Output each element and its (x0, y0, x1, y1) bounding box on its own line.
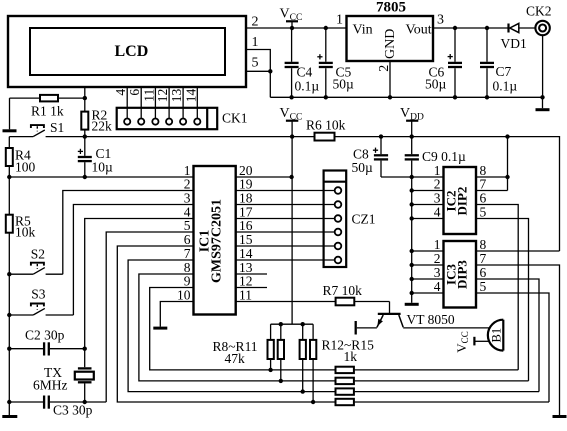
svg-text:2: 2 (434, 251, 441, 266)
connector CK1 wires from LCD (126, 87, 128, 122)
svg-text:1k: 1k (344, 349, 358, 364)
capacitor C5 (electrolytic) (324, 26, 328, 30)
svg-text:LCD: LCD (115, 43, 149, 60)
svg-text:10k: 10k (15, 225, 36, 240)
switch S2 (7, 272, 11, 276)
svg-text:GND: GND (383, 29, 398, 59)
svg-text:50µ: 50µ (425, 77, 447, 92)
svg-text:S3: S3 (31, 287, 46, 302)
regulator U 7805 (347, 16, 434, 61)
svg-text:R6 10k: R6 10k (306, 118, 346, 133)
svg-text:7: 7 (480, 251, 487, 266)
wire IC3 pin5 to bus D right (476, 293, 549, 402)
wire LCD pin2 to 7805 Vin (top supply wire) (246, 27, 347, 29)
ground (DIP common) (405, 303, 419, 306)
svg-text:DIP3: DIP3 (454, 260, 469, 289)
resistor R6 10k (315, 133, 335, 141)
svg-text:GMS97C2051: GMS97C2051 (210, 199, 225, 283)
ground (bottom left) (8, 402, 10, 415)
wire VT collector to buzzer B1 (403, 327, 490, 329)
svg-text:2: 2 (434, 177, 441, 192)
resistor R11 (312, 324, 314, 340)
svg-text:12: 12 (239, 274, 253, 289)
resistor R7 10k (236, 301, 336, 303)
ground (IC1 pin10) (153, 327, 167, 330)
svg-text:6: 6 (184, 232, 191, 247)
svg-text:6: 6 (480, 191, 487, 206)
wire LCD pin1 (246, 50, 270, 72)
node C6 junction (453, 26, 457, 30)
CZ1 holes (335, 187, 342, 194)
capacitor C1 10u (electrolytic) (78, 150, 83, 152)
svg-text:1: 1 (434, 237, 441, 252)
wire R7 to VT base (389, 302, 391, 314)
diode VD1 (507, 24, 509, 33)
svg-text:C2 30p: C2 30p (25, 328, 65, 343)
resistor R2 22k (84, 98, 86, 112)
wire pin5 junction down to ground rail (269, 71, 271, 97)
svg-text:1: 1 (336, 13, 343, 28)
wire IC2 pin7 to VDD feed (476, 190, 508, 192)
svg-text:18: 18 (239, 191, 253, 206)
svg-text:16: 16 (239, 218, 253, 233)
LCD module inner box (30, 28, 225, 75)
node crystal bottom junction (83, 400, 87, 404)
svg-text:C4: C4 (297, 65, 313, 80)
node C8 junction (379, 134, 383, 138)
wire VCC rail (left section) (46, 136, 315, 138)
wire S2 to IC1 pin2 (63, 191, 194, 275)
wire C8 bottom to IC2 pin1 (381, 176, 444, 178)
CK1 holes (124, 119, 130, 125)
capacitor C9 0.1u (411, 137, 413, 155)
svg-text:CZ1: CZ1 (352, 212, 376, 227)
wire crystal-bottom node to IC1 pin5 (106, 232, 193, 402)
svg-text:VD1: VD1 (501, 36, 527, 51)
svg-text:22k: 22k (92, 119, 113, 134)
wire IC1 pin6 to bottom bus D (117, 246, 335, 402)
wire IC1 pin20 to VCC line (236, 176, 292, 178)
op IC1 GMS97C2051 box (194, 166, 236, 315)
wire IC2 pin5 to bus B right (476, 219, 529, 381)
node R4/R5/reset junction (7, 175, 11, 179)
svg-text:CK2: CK2 (526, 4, 552, 19)
node C2 left junction (7, 347, 11, 351)
switch IC2 DIP2 box (444, 167, 477, 234)
resistor R5 10k (8, 177, 10, 215)
svg-text:VT 8050: VT 8050 (407, 312, 455, 327)
svg-text:7805: 7805 (376, 0, 406, 16)
svg-text:3: 3 (184, 191, 191, 206)
wire IC2 pin6 to bus A right (476, 205, 518, 370)
svg-text:47k: 47k (225, 351, 246, 366)
svg-text:7: 7 (480, 177, 487, 192)
node C3 left junction (7, 400, 11, 404)
wire VCC vertical feed (291, 137, 293, 325)
node R2/C1 on VCC rail (83, 134, 87, 138)
wire IC3 pin8 to VDD right edge (476, 250, 560, 252)
wire IC3 pin6 to bus C right (476, 279, 539, 392)
svg-text:DIP2: DIP2 (454, 187, 469, 216)
svg-text:4: 4 (113, 89, 128, 96)
svg-text:C7: C7 (496, 64, 512, 79)
svg-text:B1: B1 (489, 328, 503, 343)
svg-text:0.1µ: 0.1µ (295, 79, 320, 94)
resistor R4 100 (6, 148, 13, 166)
svg-text:5: 5 (252, 56, 259, 71)
wire VT emitter to ground (357, 327, 377, 329)
wire S1 to R4 (8, 137, 10, 148)
capacitor C7 (486, 28, 488, 62)
svg-text:3: 3 (434, 191, 441, 206)
node C1 bottom junction (83, 175, 87, 179)
resistor R1 1k (10, 97, 41, 99)
wire 7805 GND pin to ground rail (389, 61, 391, 97)
svg-text:S1: S1 (50, 120, 64, 135)
svg-text:4: 4 (434, 279, 441, 294)
svg-text:CK1: CK1 (222, 111, 248, 126)
capacitor C3 30p (9, 401, 43, 403)
wire IC3 pin7 to bottom-right ground (476, 265, 560, 415)
svg-text:14: 14 (183, 89, 198, 103)
node pin20/VCC junction (289, 175, 293, 179)
connector CK1 box (117, 108, 218, 129)
LCD module outer box (8, 16, 246, 87)
capacitor C8 50u (electrolytic) (380, 137, 382, 155)
wire IC1 pin8 to bottom bus B (139, 274, 336, 381)
wire crystal-top node to IC1 pin4 (85, 219, 194, 349)
svg-text:3: 3 (437, 13, 444, 28)
transistor VT 8050 (378, 313, 401, 315)
svg-text:10µ: 10µ (92, 160, 114, 175)
node R1/R2 junction (83, 96, 87, 100)
wire LCD VO pin down (84, 87, 86, 98)
wire S3 to IC1 pin3 (73, 205, 193, 316)
svg-text:6MHz: 6MHz (33, 378, 68, 393)
node IC2 pin8 feed junction (505, 134, 509, 138)
node Vcc/top wire junction (290, 26, 294, 30)
node VDD/C9 junction (410, 134, 414, 138)
wire LCD pin5 (246, 70, 270, 72)
buzzer B1 (502, 320, 504, 351)
wires IC1 pins 19-14 to CZ1 (236, 190, 338, 192)
ground (bottom right) (553, 415, 567, 418)
svg-text:50µ: 50µ (352, 160, 374, 175)
resistor R10 (302, 324, 304, 340)
wire DIP common line down to ground (411, 177, 413, 303)
svg-text:C9 0.1µ: C9 0.1µ (422, 149, 466, 164)
wire stubs to IC3 pins 1-4 (410, 249, 414, 253)
switch S3 (7, 313, 11, 317)
connector CZ1 box (324, 171, 347, 268)
svg-text:11: 11 (239, 288, 252, 303)
wire 7805 Vout to diode VD1 (433, 27, 508, 29)
svg-text:1: 1 (252, 35, 259, 50)
wire power section ground rail (270, 96, 542, 98)
svg-text:10: 10 (177, 288, 191, 303)
wire VDD rail (335, 137, 560, 251)
wire reset rail to IC1 pin1 (9, 176, 193, 178)
svg-text:S2: S2 (31, 247, 45, 262)
svg-text:Vout: Vout (406, 23, 432, 38)
svg-text:3: 3 (434, 265, 441, 280)
resistor network R8-R11 top bar (271, 323, 314, 325)
svg-text:2: 2 (252, 15, 259, 30)
svg-text:6: 6 (480, 265, 487, 280)
node VCC symbol junction (290, 134, 294, 138)
svg-text:7: 7 (184, 246, 191, 261)
svg-text:15: 15 (239, 232, 253, 247)
svg-text:19: 19 (239, 177, 253, 192)
svg-text:Vin: Vin (353, 23, 373, 38)
wire IC1 pin13 stub (236, 273, 267, 275)
crystal TX 6MHz (84, 349, 86, 368)
ground (power section) (542, 97, 544, 108)
node C7 junction (485, 26, 489, 30)
node LCD pin1/pin5 junction (268, 69, 272, 73)
wire R4 to reset rail (8, 166, 10, 177)
wire left column below R5 (8, 233, 10, 402)
svg-text:C3 30p: C3 30p (53, 403, 93, 418)
svg-text:2: 2 (184, 177, 191, 192)
capacitor C6 (electrolytic) (454, 28, 456, 62)
svg-text:12: 12 (155, 89, 170, 103)
node crystal top junction (83, 347, 87, 351)
connector CK2 (535, 21, 549, 35)
svg-text:8: 8 (480, 237, 487, 252)
switch IC3 DIP3 box (444, 241, 477, 308)
svg-text:R1 1k: R1 1k (31, 104, 64, 119)
wire CK2 to ground rail (542, 35, 544, 97)
node C9 bottom junction (410, 175, 414, 179)
svg-text:6: 6 (127, 89, 142, 96)
capacitor C4 (291, 28, 293, 62)
svg-text:0.1µ: 0.1µ (493, 79, 518, 94)
svg-text:50µ: 50µ (333, 77, 355, 92)
wire stubs to IC2 pins 2-4 (410, 188, 414, 192)
wire VCC to buzzer (474, 340, 489, 342)
svg-text:100: 100 (15, 160, 36, 175)
svg-text:13: 13 (169, 89, 184, 103)
wire IC1 pin12 stub (236, 287, 267, 289)
resistor R8 (270, 324, 272, 340)
wire IC1 pin10 to ground (160, 302, 193, 327)
ground (R1 left) (9, 98, 11, 129)
wire IC1 pin9 to bottom bus A (150, 288, 336, 370)
svg-text:4: 4 (434, 205, 441, 220)
svg-text:5: 5 (480, 205, 487, 220)
svg-text:5: 5 (184, 218, 191, 233)
ground (VT emitter, rotated) (355, 321, 357, 335)
wire IC1 pin7 to bottom bus C (128, 260, 335, 392)
svg-text:R7 10k: R7 10k (323, 283, 363, 298)
resistor R9 (280, 324, 282, 340)
svg-text:9: 9 (184, 274, 191, 289)
bus right segments (354, 369, 518, 371)
wire IC2 pin8 to VDD (476, 176, 508, 178)
svg-text:14: 14 (239, 246, 253, 261)
svg-text:5: 5 (480, 279, 487, 294)
